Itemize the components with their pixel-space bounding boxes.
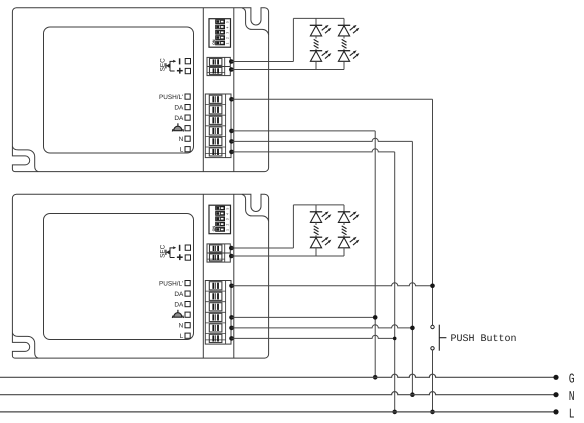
wire: LED string left of U1 top stub	[315, 18, 317, 25]
LED polarity icon next to SEC label	[166, 60, 176, 71]
DIP switch S1 position 5	[216, 20, 225, 24]
svg-text:1: 1	[226, 229, 230, 231]
mains/control terminal block of U2 (6-pole)	[205, 281, 231, 345]
svg-text:L: L	[569, 407, 575, 422]
L rail end dot	[553, 409, 558, 414]
SEC output terminal block of U2 (2-pole)	[207, 244, 230, 262]
DIP switch S2 ON label	[212, 226, 216, 232]
terminal label text L of U1	[180, 147, 184, 154]
junction dot: U2 earth on earth drop	[373, 315, 378, 320]
N rail label	[569, 390, 575, 405]
wire: LED array top rail of U1	[293, 17, 344, 19]
wire: LED string right of U2 top stub	[343, 205, 345, 212]
wire: stub below LED D2lefta	[315, 222, 317, 225]
terminal label indicator square (PUSH/L')	[185, 94, 190, 99]
svg-text:DA: DA	[174, 104, 184, 111]
svg-text:SEC: SEC	[159, 58, 166, 72]
terminal label text DA of U1	[174, 104, 184, 111]
plus polarity mark	[177, 68, 183, 74]
DIP switch S2 position 3	[216, 217, 225, 221]
svg-text:3: 3	[226, 32, 230, 34]
LED D1righta	[338, 25, 360, 36]
junction dot: N drop on N rail	[410, 392, 415, 397]
terminal label text DA of U2	[174, 301, 184, 308]
SEC terminal pin + connection dot	[229, 246, 234, 251]
wire: U1 L terminal to L drop (hops earth drop)	[232, 149, 395, 152]
terminal label text N of U1	[179, 136, 184, 143]
DIP switch S1 position 3	[216, 30, 225, 34]
terminal label text PUSH/L' of U2	[159, 280, 183, 287]
wire: LED string left of U1 bottom stub	[315, 61, 317, 69]
LED D2leftb	[310, 237, 332, 248]
DIP switch S2 pin number 1	[226, 229, 230, 231]
wire: U2 L terminal to L drop junction (hops earth drop)	[232, 335, 395, 338]
SEC + indicator square	[185, 255, 190, 260]
junction dot: L drop on L rail	[392, 410, 397, 415]
DIP switch S1 pin number 4	[226, 26, 230, 28]
driver U1 panel partition line A	[202, 8, 204, 172]
svg-text:L: L	[180, 147, 184, 154]
DIP switch S1 pin number 3	[226, 32, 230, 34]
SEC terminal pin + connection dot	[229, 59, 234, 64]
LED polarity icon next to SEC label	[166, 246, 176, 257]
mains/control terminal block of U1 (6-pole)	[205, 94, 231, 158]
svg-text:G: G	[569, 373, 575, 388]
svg-text:4: 4	[226, 26, 230, 28]
driver U1 inner label panel	[44, 27, 194, 153]
terminal label indicator square (DA)	[185, 105, 190, 110]
connection dot at U2 pin PUSH/L'	[229, 284, 234, 289]
DIP switch S1 pin number 2	[226, 37, 230, 39]
N rail end dot	[553, 392, 558, 397]
wire: LED string right of U1 bottom stub	[343, 61, 345, 69]
connection dot at U1 pin earth	[229, 129, 234, 134]
push button S3 lower contact	[431, 347, 434, 350]
wire: push-button drop lower segment (button to L rail)	[432, 350, 434, 412]
driver U2 panel partition line A	[202, 194, 204, 358]
connection dot at U1 pin L	[229, 150, 234, 155]
wire: SEC- of U1 / LED array bottom rail	[231, 69, 344, 71]
wire: LED string right of U2 bottom stub	[343, 248, 345, 256]
G rail label	[569, 373, 575, 388]
terminal label text DA of U2	[174, 291, 184, 298]
connection dot at U2 pin N	[229, 326, 234, 331]
wire: stub above LED D1leftb	[315, 49, 317, 51]
junction dot: U2 PUSH wire on push-button drop	[430, 284, 435, 289]
svg-text:PUSH Button: PUSH Button	[451, 334, 517, 345]
terminal label text DA of U1	[174, 115, 184, 122]
terminal label text PUSH/L' of U1	[159, 94, 183, 101]
wire: stub below LED D1lefta	[315, 36, 317, 39]
svg-text:DA: DA	[174, 291, 184, 298]
svg-text:DA: DA	[174, 115, 184, 122]
wire: G supply rail	[0, 374, 556, 377]
wire: stub below LED D1righta	[343, 36, 345, 39]
svg-text:5: 5	[226, 21, 230, 23]
svg-text:3: 3	[226, 218, 230, 220]
SEC terminal pin - connection dot	[229, 67, 234, 72]
driver U2 bottom-left mounting-ear fillet	[12, 333, 38, 358]
terminal label indicator square (PUSH/L')	[185, 281, 190, 286]
push button S3 actuator bar	[439, 325, 446, 351]
terminal label text L of U2	[180, 333, 184, 340]
connection dot at U1 pin N	[229, 139, 234, 144]
terminal label indicator square (earth)	[185, 312, 190, 317]
series-continuation marks (more LEDs) string left U2	[314, 226, 319, 235]
push button S3 upper contact	[431, 325, 434, 328]
wire: stub above LED D2leftb	[315, 235, 317, 237]
driver U2 inner label panel	[44, 214, 194, 340]
G rail end dot	[553, 375, 558, 380]
wire: U2 earth terminal to earth drop junction	[232, 316, 376, 318]
connection dot at U2 pin earth	[229, 315, 234, 320]
svg-text:N: N	[179, 323, 184, 330]
svg-text:PUSH/L': PUSH/L'	[159, 280, 183, 287]
DIP switch S1 position 4	[216, 25, 225, 29]
junction dot: U2 N on N drop	[410, 326, 415, 331]
SEC output terminal block of U1 (2-pole)	[207, 57, 230, 75]
svg-text:DA: DA	[174, 301, 184, 308]
driver U1 top-right mounting-ear fillet	[242, 8, 269, 35]
wire: stub below LED D2righta	[343, 222, 345, 225]
terminal label indicator square (N)	[185, 136, 190, 141]
svg-text:PUSH/L': PUSH/L'	[159, 94, 183, 101]
terminal label indicator square (L)	[185, 333, 190, 338]
SEC label text (rotated)	[159, 244, 166, 258]
DIP switch S2 position 1	[216, 228, 225, 232]
DIP switch S1 ON label	[212, 39, 216, 45]
junction dot: push-button drop on L rail	[430, 410, 435, 415]
LED D1lefta	[310, 25, 332, 36]
svg-text:2: 2	[226, 223, 230, 225]
series-continuation marks (more LEDs) string left U1	[314, 39, 319, 48]
driver U2 top-right mounting-ear fillet	[242, 194, 269, 221]
series-continuation marks (more LEDs) string right U1	[342, 39, 347, 48]
terminal label indicator square (L)	[185, 147, 190, 152]
junction dot: earth drop on G rail	[373, 375, 378, 380]
DIP switch S2 position 5	[216, 206, 225, 210]
wire: stub above LED D2rightb	[343, 235, 345, 237]
terminal label indicator square (N)	[185, 323, 190, 328]
wire: SEC+ of U2 to LED array riser	[231, 205, 293, 248]
wire: L supply rail	[0, 411, 556, 413]
DIP switch S1 pin number 1	[226, 42, 230, 44]
svg-text:5: 5	[226, 208, 230, 210]
wire: SEC+ of U1 to LED array riser	[231, 18, 293, 61]
wire: N supply rail	[0, 392, 556, 395]
DIP switch S2 pin number 5	[226, 208, 230, 210]
L rail label	[569, 407, 575, 422]
svg-text:L: L	[180, 333, 184, 340]
wire: LED array top rail of U2	[293, 204, 344, 206]
DIP switch S2 position 4	[216, 212, 225, 216]
svg-text:4: 4	[226, 213, 230, 215]
minus polarity mark	[179, 58, 181, 64]
LED driver U1 enclosure outline	[12, 8, 268, 172]
wire: earth vertical drop to G rail	[374, 131, 376, 377]
DIP switch S2 position 2	[216, 222, 225, 226]
svg-text:N: N	[179, 136, 184, 143]
wire: LED string left of U2 bottom stub	[315, 248, 317, 256]
DIP switch S1 position 2	[216, 36, 225, 40]
svg-text:ON: ON	[212, 39, 216, 45]
wire: L vertical drop to L rail	[394, 152, 396, 412]
wire: U2 N terminal to N drop junction (hops earth and L drops)	[232, 325, 413, 328]
SEC - indicator square	[185, 245, 190, 250]
connection dot at U1 pin PUSH/L'	[229, 97, 234, 102]
wire: LED string right of U1 top stub	[343, 18, 345, 25]
svg-text:1: 1	[226, 42, 230, 44]
DIP switch S2 pin number 2	[226, 223, 230, 225]
series-continuation marks (more LEDs) string right U2	[342, 226, 347, 235]
SEC - indicator square	[185, 59, 190, 64]
earth terminal label symbol of U1	[172, 123, 183, 131]
driver U1 panel partition line B	[233, 8, 235, 172]
wire: stub above LED D1rightb	[343, 49, 345, 51]
DIP switch S1 body	[209, 19, 231, 48]
PUSH Button label	[451, 334, 517, 345]
driver U1 bottom-left mounting-ear fillet	[12, 146, 38, 171]
DIP switch S2 body	[209, 205, 231, 234]
wire: N vertical drop to N rail	[411, 141, 413, 394]
junction dot: U2 L on L drop	[393, 337, 397, 341]
wire: U1 PUSH/L&#39; terminal to push-button drop	[232, 98, 433, 100]
terminal label indicator square (DA)	[185, 115, 190, 120]
connection dot at U2 pin L	[229, 336, 234, 341]
LED driver U2 enclosure outline	[12, 194, 268, 358]
svg-text:SEC: SEC	[159, 244, 166, 258]
wire: push-button drop upper segment (U1 PUSH to button)	[432, 99, 434, 325]
plus polarity mark	[177, 254, 183, 260]
driver U2 panel partition line B	[233, 194, 235, 358]
SEC label text (rotated)	[159, 58, 166, 72]
wire: U2 PUSH/L&#39; terminal to push-button node (hops L and N drops)	[232, 283, 433, 286]
terminal label indicator square (DA)	[185, 291, 190, 296]
DIP switch S1 pin number 5	[226, 21, 230, 23]
terminal label text N of U2	[179, 323, 184, 330]
SEC terminal pin - connection dot	[229, 254, 234, 259]
wire: SEC- of U2 / LED array bottom rail	[231, 255, 344, 257]
wire: U1 N terminal to N drop (hops earth drop)	[232, 138, 413, 141]
terminal label indicator square (earth)	[185, 126, 190, 131]
LED D2lefta	[310, 211, 332, 222]
earth terminal label symbol of U2	[172, 310, 183, 318]
wire: LED string left of U2 top stub	[315, 205, 317, 212]
LED D2rightb	[338, 237, 360, 248]
svg-text:N: N	[569, 390, 575, 405]
terminal label indicator square (DA)	[185, 302, 190, 307]
LED D2righta	[338, 211, 360, 222]
svg-text:2: 2	[226, 37, 230, 39]
DIP switch S2 pin number 3	[226, 218, 230, 220]
LED D1leftb	[310, 50, 332, 61]
minus polarity mark	[179, 245, 181, 251]
LED D1rightb	[338, 50, 360, 61]
DIP switch S1 position 1	[216, 41, 225, 45]
wire: U1 earth terminal to earth drop	[232, 130, 376, 132]
SEC + indicator square	[185, 68, 190, 73]
DIP switch S2 pin number 4	[226, 213, 230, 215]
svg-text:ON: ON	[212, 226, 216, 232]
